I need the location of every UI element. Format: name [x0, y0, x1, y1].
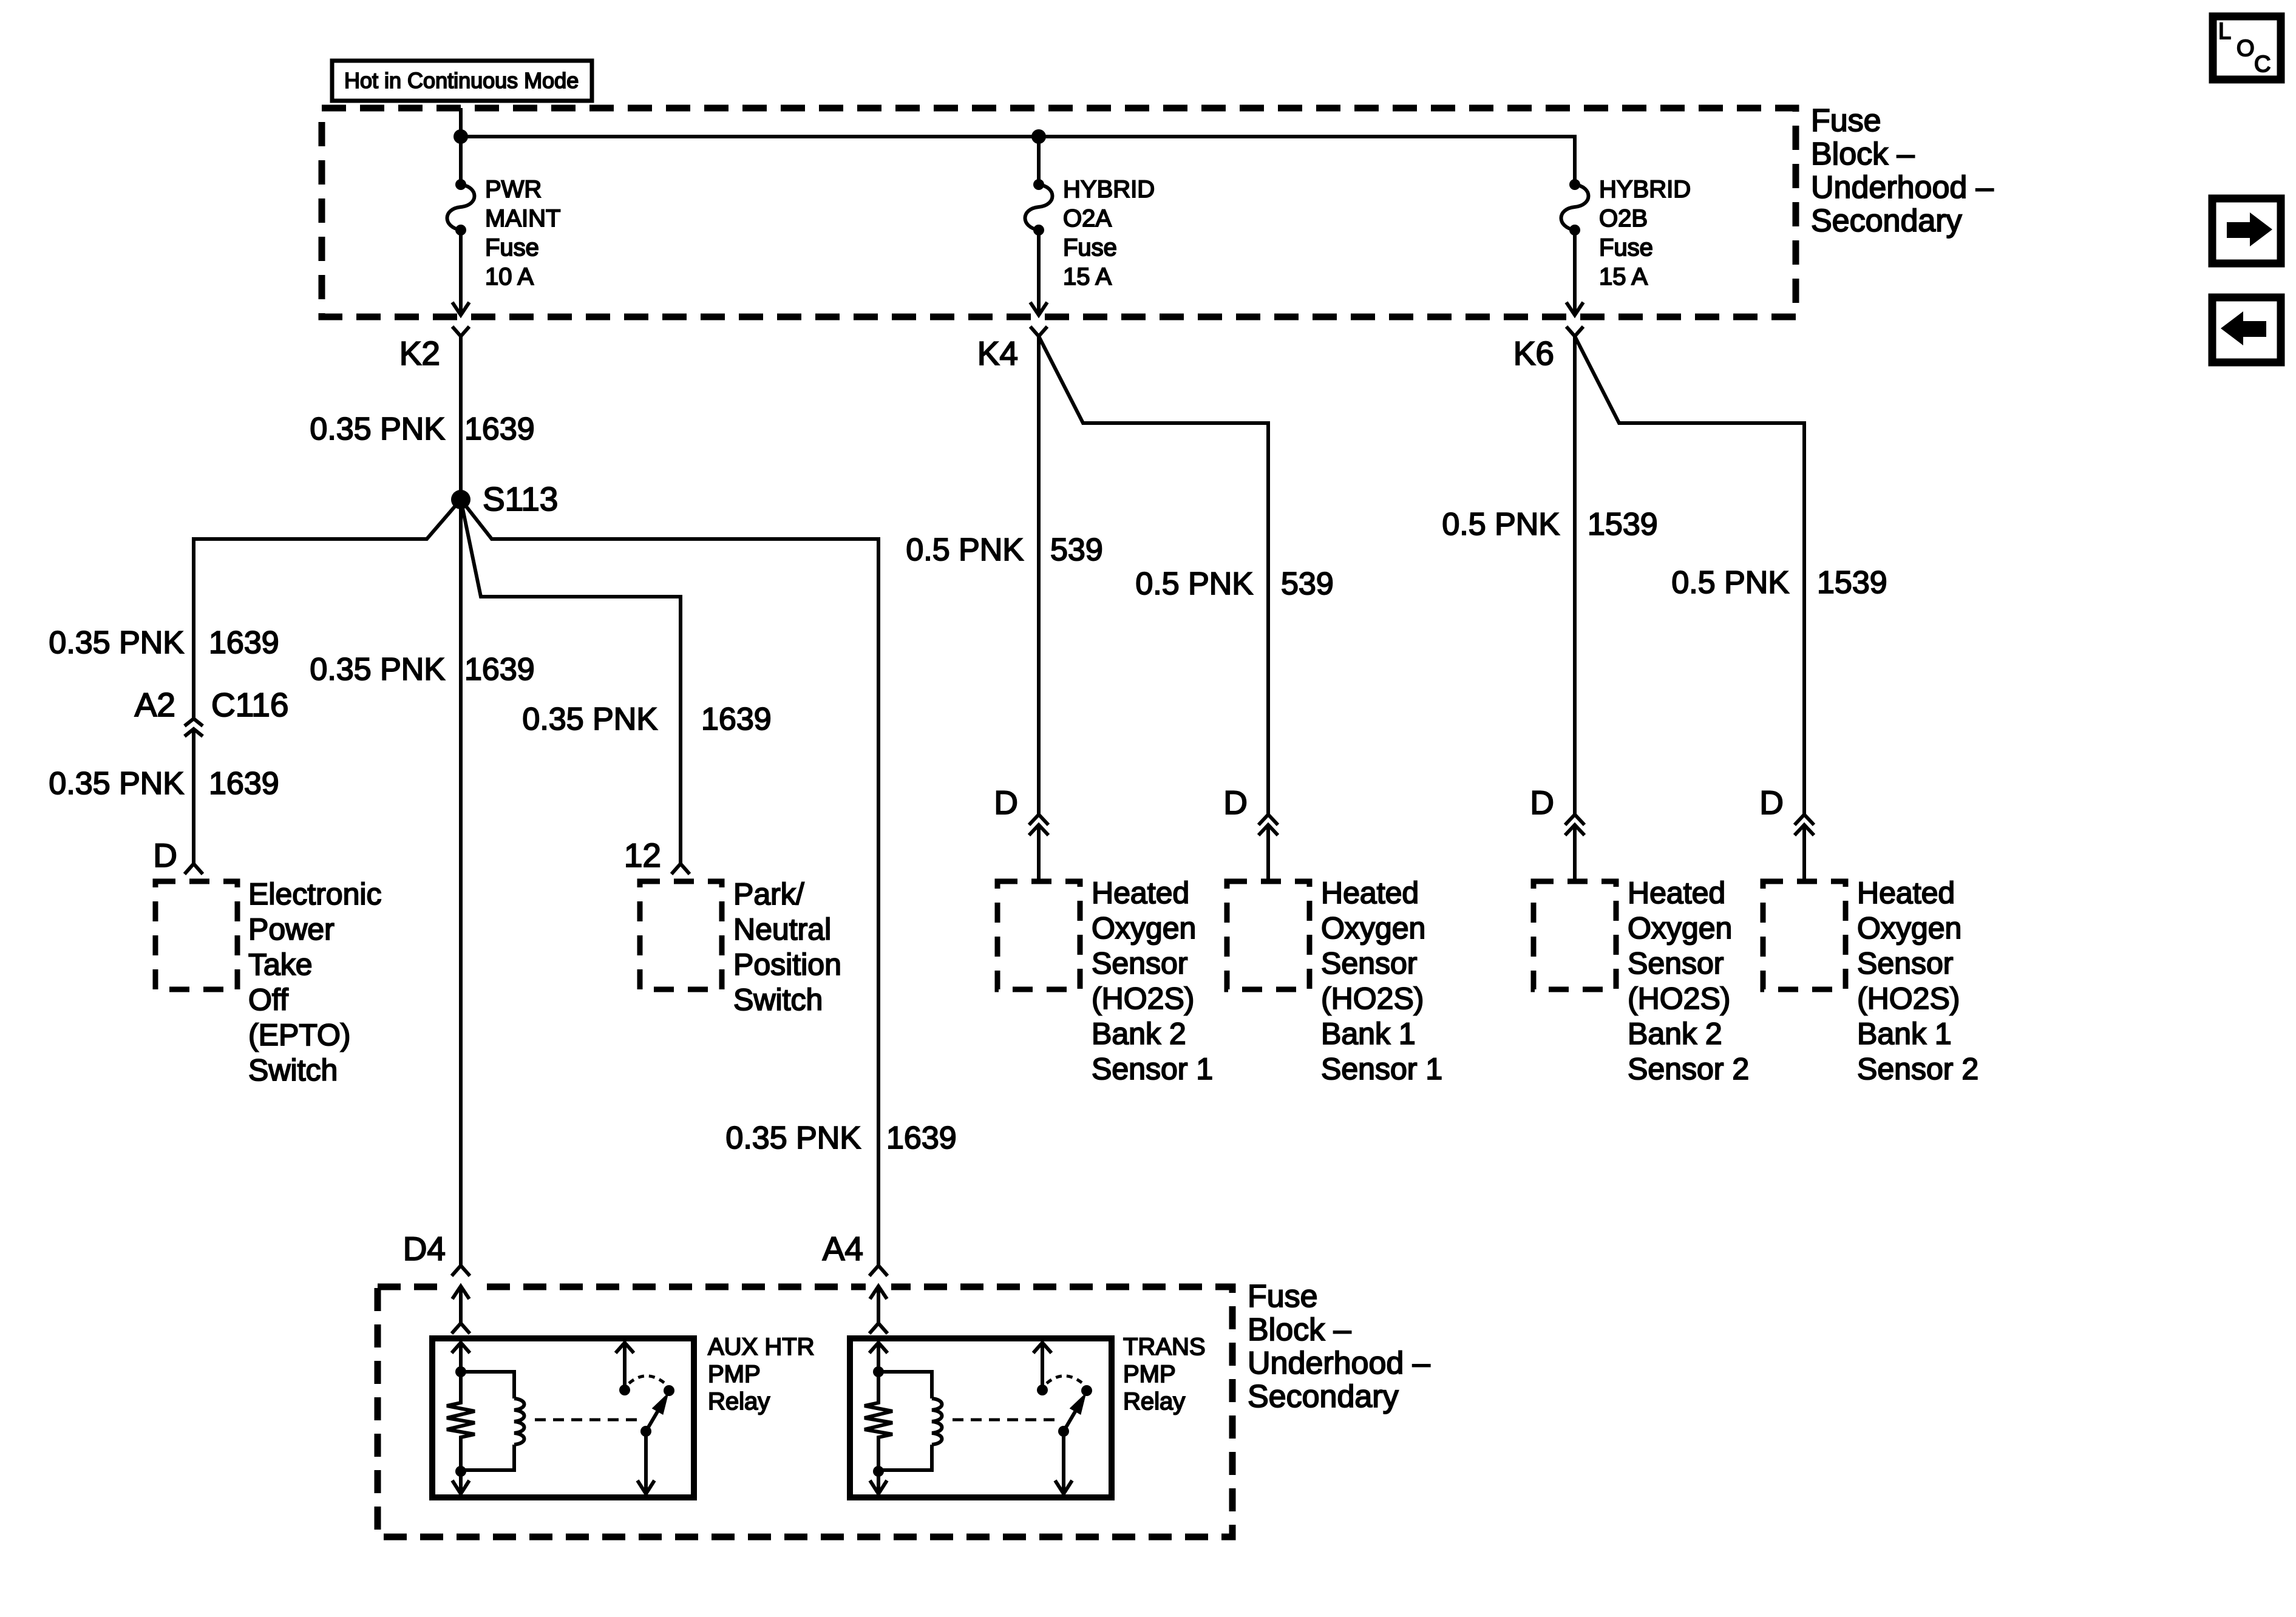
svg-text:Switch: Switch — [733, 983, 823, 1017]
connector pin K2 below fuse block — [399, 327, 469, 372]
wire label 0.35 PNK 1639 (main wire) — [310, 652, 534, 687]
label box: Hot in Continuous Mode — [332, 61, 592, 101]
svg-text:(HO2S): (HO2S) — [1321, 981, 1424, 1015]
connector A2 / C116 in-line — [135, 686, 289, 736]
svg-text:D: D — [994, 784, 1018, 821]
wire: K6 diagonal branch to HO2S bank 1 sensor 2, 0.5 PNK 1539 — [1575, 336, 1887, 881]
svg-text:15 A: 15 A — [1599, 263, 1648, 290]
pin D of EPTO switch — [153, 836, 203, 874]
node: TRANS PMP relay closed contact — [1081, 1385, 1092, 1396]
svg-text:Sensor: Sensor — [1857, 946, 1953, 980]
node: TRANS PMP relay coil top junction — [873, 1366, 884, 1377]
svg-text:(EPTO): (EPTO) — [248, 1018, 351, 1052]
svg-text:A4: A4 — [823, 1230, 863, 1267]
svg-text:539: 539 — [1281, 566, 1334, 602]
svg-text:Take: Take — [248, 947, 313, 981]
relay AUX HTR PMP relay coil pin (top) — [452, 1343, 470, 1373]
component box: heated oxygen sensor HO2S bank 1 sensor 1 — [1227, 876, 1442, 1086]
relay TRANS PMP relay common contact pin (top) — [1033, 1343, 1051, 1390]
svg-text:D: D — [153, 836, 177, 874]
wire: S113 middle branch to park/neutral position switch — [461, 500, 681, 864]
forward navigation arrow box — [2212, 198, 2281, 263]
svg-text:Sensor: Sensor — [1092, 946, 1187, 980]
svg-text:Underhood –: Underhood – — [1811, 170, 1994, 205]
wire: K4 down to HO2S bank 2 sensor 1, 0.5 PNK 539 — [906, 336, 1102, 881]
svg-text:S113: S113 — [483, 480, 558, 518]
fuse PWR MAINT Fuse 10A — [447, 137, 561, 315]
svg-text:10 A: 10 A — [485, 263, 534, 290]
fuse HYBRID O2B Fuse 15A — [1561, 137, 1691, 315]
pin D of HO2S bank 1 sensor 1 — [1223, 784, 1278, 835]
node: AUX HTR PMP relay coil bottom junction — [455, 1466, 466, 1477]
svg-text:0.5 PNK: 0.5 PNK — [1671, 565, 1789, 600]
switch armature in TRANS PMP relay — [1064, 1396, 1084, 1431]
svg-text:Bank 1: Bank 1 — [1857, 1017, 1952, 1051]
svg-text:Oxygen: Oxygen — [1092, 911, 1196, 945]
svg-text:D: D — [1759, 784, 1784, 821]
component box: heated oxygen sensor HO2S bank 2 sensor 2 — [1533, 876, 1749, 1086]
connector pin A4 into bottom fuse block — [823, 1230, 888, 1276]
svg-text:O2A: O2A — [1063, 205, 1112, 232]
svg-text:Electronic: Electronic — [248, 877, 382, 911]
svg-text:D4: D4 — [403, 1230, 446, 1267]
fuse block (bottom) name label — [1248, 1279, 1430, 1414]
svg-text:HYBRID: HYBRID — [1063, 176, 1155, 203]
svg-text:K2: K2 — [399, 334, 440, 372]
svg-text:K6: K6 — [1513, 334, 1554, 372]
svg-text:Block –: Block – — [1248, 1312, 1351, 1347]
svg-text:O: O — [2237, 36, 2255, 61]
svg-text:0.5 PNK: 0.5 PNK — [1135, 566, 1253, 602]
node: TRANS PMP relay armature pivot — [1058, 1426, 1069, 1437]
svg-text:Neutral: Neutral — [733, 912, 831, 946]
svg-text:Sensor 2: Sensor 2 — [1857, 1052, 1978, 1086]
node: TRANS PMP relay coil bottom junction — [873, 1466, 884, 1477]
relay AUX HTR PMP relay coil pin (bottom) — [452, 1471, 469, 1494]
relay AUX HTR PMP relay name label — [708, 1334, 815, 1415]
svg-text:Fuse: Fuse — [1063, 234, 1117, 261]
resistor inside TRANS PMP relay — [864, 1372, 892, 1471]
relay TRANS PMP relay switched pin (bottom) — [1055, 1431, 1072, 1494]
svg-text:Position: Position — [733, 947, 841, 981]
wire: S113 right branch to A4 trans pmp relay — [461, 500, 878, 1266]
node: bus junction at HYBRID O2A fuse — [1031, 129, 1046, 144]
svg-text:Sensor 1: Sensor 1 — [1092, 1052, 1213, 1086]
svg-text:(HO2S): (HO2S) — [1857, 981, 1960, 1015]
node: AUX HTR PMP relay stationary contact — [619, 1385, 630, 1395]
wire label 0.35 PNK 1639 (left branch upper) — [49, 625, 279, 660]
dashed actuation link in TRANS PMP relay — [953, 1419, 1059, 1422]
svg-text:Fuse: Fuse — [1811, 103, 1881, 138]
svg-text:0.35 PNK: 0.35 PNK — [49, 766, 184, 801]
component box: heated oxygen sensor HO2S bank 2 sensor 1 — [997, 876, 1213, 1086]
coil (inductor) inside AUX HTR PMP relay — [461, 1372, 525, 1470]
component box: heated oxygen sensor HO2S bank 1 sensor 2 — [1763, 876, 1978, 1086]
svg-text:0.35 PNK: 0.35 PNK — [49, 625, 184, 660]
relay TRANS PMP relay name label — [1123, 1334, 1206, 1415]
svg-text:MAINT: MAINT — [485, 205, 560, 232]
component box: Park/Neutral Position Switch — [640, 877, 841, 1017]
svg-text:1639: 1639 — [464, 652, 535, 687]
svg-text:Heated: Heated — [1628, 876, 1725, 910]
splice node S113 — [451, 480, 558, 518]
switch armature in AUX HTR PMP relay — [646, 1396, 667, 1431]
dashed actuation link in AUX HTR PMP relay — [535, 1419, 641, 1422]
svg-text:Relay: Relay — [1123, 1388, 1185, 1415]
svg-text:(HO2S): (HO2S) — [1628, 981, 1730, 1015]
svg-text:Underhood –: Underhood – — [1248, 1346, 1430, 1381]
svg-text:Sensor: Sensor — [1628, 946, 1724, 980]
wire entry into bottom fuse block at x=1447 — [869, 1286, 888, 1334]
svg-text:15 A: 15 A — [1063, 263, 1112, 290]
svg-text:Sensor 2: Sensor 2 — [1628, 1052, 1749, 1086]
node: AUX HTR PMP relay coil top junction — [455, 1366, 466, 1377]
svg-text:1539: 1539 — [1588, 507, 1658, 542]
svg-text:HYBRID: HYBRID — [1599, 176, 1691, 203]
fuse block underhood secondary (bottom) dashed outline — [378, 1280, 1232, 1537]
svg-text:1539: 1539 — [1817, 565, 1887, 600]
svg-text:Fuse: Fuse — [1599, 234, 1653, 261]
svg-text:PMP: PMP — [1123, 1361, 1176, 1388]
svg-text:Heated: Heated — [1321, 876, 1419, 910]
svg-text:C: C — [2254, 52, 2271, 77]
wire: K6 down to HO2S bank 2 sensor 2, 0.5 PNK 1539 — [1442, 336, 1657, 881]
svg-text:A2: A2 — [135, 686, 175, 724]
dashed travel arc in AUX HTR PMP relay — [629, 1376, 664, 1383]
svg-text:Heated: Heated — [1092, 876, 1189, 910]
wire: S113 straight down to D4 aux htr pmp relay — [459, 500, 463, 1266]
wire: horizontal bus inside fuse block — [459, 135, 1577, 138]
svg-text:1639: 1639 — [464, 412, 535, 447]
svg-text:Park/: Park/ — [733, 877, 804, 911]
relay TRANS PMP relay coil pin (bottom) — [870, 1471, 887, 1494]
component box: Electronic Power Take Off (EPTO) Switch — [155, 877, 382, 1087]
svg-text:Oxygen: Oxygen — [1857, 911, 1961, 945]
node: AUX HTR PMP relay armature pivot — [640, 1426, 651, 1437]
svg-text:K4: K4 — [977, 334, 1018, 372]
svg-text:Switch: Switch — [248, 1053, 338, 1087]
svg-text:Fuse: Fuse — [485, 234, 539, 261]
pin D of HO2S bank 2 sensor 2 — [1530, 784, 1584, 835]
svg-text:0.5 PNK: 0.5 PNK — [906, 532, 1024, 568]
svg-text:PMP: PMP — [708, 1361, 761, 1388]
svg-text:D: D — [1223, 784, 1248, 821]
svg-text:0.35 PNK: 0.35 PNK — [725, 1120, 861, 1156]
pin D of HO2S bank 1 sensor 2 — [1759, 784, 1814, 835]
node: TRANS PMP relay stationary contact — [1037, 1385, 1048, 1395]
svg-text:1639: 1639 — [209, 625, 279, 660]
svg-text:Bank 1: Bank 1 — [1321, 1017, 1416, 1051]
node: AUX HTR PMP relay closed contact — [664, 1385, 674, 1396]
wire label 0.35 PNK 1639 (right branch near A4) — [725, 1120, 956, 1156]
wire: feed from top border to bus — [459, 108, 463, 138]
svg-text:1639: 1639 — [701, 702, 772, 737]
wire K2 to S113, 0.35 PNK 1639 — [310, 336, 534, 500]
svg-text:D: D — [1530, 784, 1554, 821]
LOC locator box (top right) — [2213, 16, 2281, 80]
svg-text:AUX HTR: AUX HTR — [708, 1334, 815, 1360]
relay TRANS PMP relay box — [850, 1338, 1112, 1497]
backward navigation arrow box — [2212, 297, 2281, 362]
svg-text:0.35 PNK: 0.35 PNK — [522, 702, 657, 737]
connector pin K4 below fuse block — [977, 327, 1047, 372]
wire: K4 diagonal branch to HO2S bank 1 sensor 1, 0.5 PNK 539 — [1039, 336, 1334, 881]
svg-text:Secondary: Secondary — [1248, 1379, 1399, 1414]
wire label 0.35 PNK 1639 (middle branch) — [522, 702, 771, 737]
fuse block (top) name label — [1811, 103, 1994, 239]
svg-text:Hot in Continuous Mode: Hot in Continuous Mode — [344, 68, 579, 93]
svg-text:Relay: Relay — [708, 1388, 770, 1415]
svg-text:Off: Off — [248, 983, 288, 1017]
wire label 0.35 PNK 1639 (left branch lower) — [49, 766, 279, 801]
connector pin D4 into bottom fuse block — [403, 1230, 470, 1276]
svg-text:C116: C116 — [211, 686, 288, 724]
relay AUX HTR PMP relay box — [432, 1338, 694, 1497]
relay AUX HTR PMP relay switched pin (bottom) — [637, 1431, 654, 1494]
wire: S113 left branch to EPTO switch — [194, 500, 461, 719]
fuse block underhood secondary (top) dashed outline — [322, 108, 1796, 317]
pin 12 of park/neutral position switch — [624, 836, 690, 874]
svg-text:Oxygen: Oxygen — [1628, 911, 1732, 945]
coil (inductor) inside TRANS PMP relay — [878, 1372, 942, 1470]
svg-text:PWR: PWR — [485, 176, 542, 203]
svg-text:Secondary: Secondary — [1811, 203, 1962, 239]
svg-text:0.35 PNK: 0.35 PNK — [310, 652, 445, 687]
svg-text:Bank 2: Bank 2 — [1628, 1017, 1722, 1051]
svg-text:539: 539 — [1050, 532, 1103, 568]
dashed travel arc in TRANS PMP relay — [1047, 1376, 1082, 1383]
svg-text:Fuse: Fuse — [1248, 1279, 1318, 1314]
svg-text:Bank 2: Bank 2 — [1092, 1017, 1186, 1051]
resistor inside AUX HTR PMP relay — [447, 1372, 475, 1471]
svg-text:Power: Power — [248, 912, 335, 946]
svg-text:Block –: Block – — [1811, 137, 1915, 172]
svg-text:12: 12 — [624, 836, 661, 874]
svg-text:Sensor 1: Sensor 1 — [1321, 1052, 1442, 1086]
svg-text:Oxygen: Oxygen — [1321, 911, 1425, 945]
pin D of HO2S bank 2 sensor 1 — [994, 784, 1048, 835]
svg-text:O2B: O2B — [1599, 205, 1648, 232]
svg-text:L: L — [2218, 19, 2231, 44]
svg-text:(HO2S): (HO2S) — [1092, 981, 1194, 1015]
node: bus junction at PWR MAINT fuse — [453, 129, 468, 144]
wire entry into bottom fuse block at x=759 — [452, 1286, 470, 1334]
relay AUX HTR PMP relay common contact pin (top) — [616, 1343, 634, 1390]
svg-text:Heated: Heated — [1857, 876, 1955, 910]
relay TRANS PMP relay coil pin (top) — [869, 1343, 888, 1373]
fuse HYBRID O2A Fuse 15A — [1025, 137, 1155, 315]
svg-text:1639: 1639 — [209, 766, 279, 801]
wire: left branch below C116 — [192, 729, 195, 864]
connector pin K6 below fuse block — [1513, 327, 1583, 372]
svg-text:0.5 PNK: 0.5 PNK — [1442, 507, 1560, 542]
svg-text:Sensor: Sensor — [1321, 946, 1417, 980]
svg-text:TRANS: TRANS — [1123, 1334, 1206, 1360]
svg-text:0.35 PNK: 0.35 PNK — [310, 412, 445, 447]
svg-text:1639: 1639 — [886, 1120, 957, 1156]
